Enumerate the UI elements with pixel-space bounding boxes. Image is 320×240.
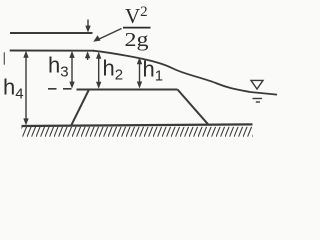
svg-text:2g: 2g [125, 29, 149, 51]
dashed crest extension line [48, 88, 76, 90]
water surface drawdown curve [93, 51, 277, 95]
leader arrow from V^2/2g label [93, 29, 121, 42]
dimension h4 arrow [23, 51, 28, 126]
dimension h1 arrow [137, 57, 142, 88]
upstream water surface line [10, 50, 94, 52]
dimension V^2/2g upper arrow (down to energy line) [85, 20, 90, 33]
weir crest (top of trapezoid) [77, 89, 178, 91]
downstream water level symbol (nabla) [251, 80, 263, 102]
weir left slope [72, 90, 90, 125]
weir right slope [178, 90, 209, 125]
scan artifact mark at left edge [3, 52, 5, 64]
ground line [22, 124, 253, 126]
energy grade line [10, 32, 93, 34]
dimension h3 arrow [69, 51, 74, 89]
dimension h2 arrow [96, 52, 101, 89]
label V^2 / 2g [123, 4, 151, 51]
dimension V^2/2g lower arrow (up to water line) [85, 51, 90, 60]
